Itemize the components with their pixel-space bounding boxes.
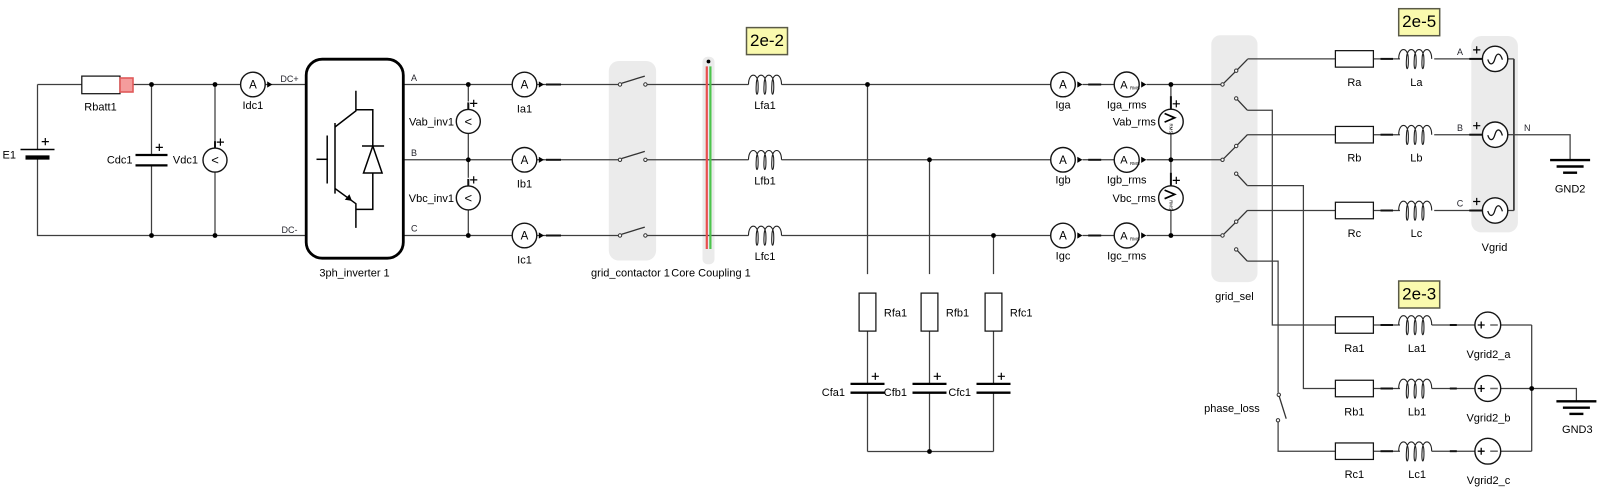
svg-text:Idc1: Idc1 — [243, 100, 264, 112]
svg-text:A: A — [411, 73, 417, 83]
svg-text:Rbatt1: Rbatt1 — [84, 102, 116, 114]
svg-text:Igb: Igb — [1055, 175, 1070, 187]
svg-text:Core Coupling 1: Core Coupling 1 — [671, 268, 751, 280]
svg-text:Rfb1: Rfb1 — [946, 308, 969, 320]
svg-text:Vab_rms: Vab_rms — [1113, 117, 1157, 129]
svg-text:Ia1: Ia1 — [517, 103, 532, 115]
svg-text:Vgrid2_a: Vgrid2_a — [1466, 349, 1511, 361]
svg-text:Lc: Lc — [1411, 228, 1423, 240]
svg-text:RMS: RMS — [1130, 86, 1140, 91]
svg-text:Ib1: Ib1 — [517, 179, 532, 191]
svg-text:RMS: RMS — [1130, 161, 1140, 166]
svg-text:GND3: GND3 — [1562, 424, 1593, 436]
svg-text:phase_loss: phase_loss — [1204, 403, 1260, 415]
svg-text:DC+: DC+ — [280, 74, 298, 84]
svg-text:Vgrid: Vgrid — [1482, 242, 1508, 254]
svg-text:La: La — [1410, 77, 1423, 89]
svg-text:2e-3: 2e-3 — [1402, 285, 1436, 304]
svg-text:Cdc1: Cdc1 — [107, 155, 133, 167]
svg-text:<: < — [211, 153, 219, 168]
svg-text:Rc1: Rc1 — [1345, 469, 1365, 481]
svg-text:Cfb1: Cfb1 — [884, 387, 907, 399]
svg-text:C: C — [1457, 199, 1464, 209]
svg-text:Igb_rms: Igb_rms — [1107, 175, 1147, 187]
svg-text:Vgrid2_b: Vgrid2_b — [1466, 413, 1510, 425]
svg-text:GND2: GND2 — [1555, 184, 1586, 196]
svg-text:Lb1: Lb1 — [1408, 407, 1426, 419]
svg-text:Cfc1: Cfc1 — [948, 387, 971, 399]
svg-text:A: A — [1120, 79, 1128, 91]
svg-text:Vab_inv1: Vab_inv1 — [409, 116, 454, 128]
svg-text:Ra1: Ra1 — [1344, 343, 1364, 355]
svg-text:2e-5: 2e-5 — [1402, 12, 1436, 31]
svg-text:La1: La1 — [1408, 343, 1426, 355]
svg-text:Ic1: Ic1 — [517, 254, 532, 266]
svg-text:E1: E1 — [3, 150, 16, 162]
svg-text:N: N — [1524, 123, 1531, 133]
svg-text:Rc: Rc — [1348, 228, 1362, 240]
svg-text:Vbc_rms: Vbc_rms — [1112, 193, 1156, 205]
svg-text:A: A — [521, 80, 529, 92]
svg-text:Ra: Ra — [1347, 77, 1362, 89]
svg-text:A: A — [1059, 231, 1067, 243]
svg-text:<: < — [465, 114, 473, 129]
svg-text:Iga: Iga — [1055, 99, 1071, 111]
svg-text:A: A — [1120, 230, 1128, 242]
svg-text:DC-: DC- — [282, 225, 298, 235]
svg-text:B: B — [411, 148, 417, 158]
svg-text:2e-2: 2e-2 — [750, 31, 784, 50]
svg-text:A: A — [1059, 80, 1067, 92]
svg-text:A: A — [521, 155, 529, 167]
svg-text:Lfa1: Lfa1 — [754, 100, 775, 112]
svg-text:RMS: RMS — [1168, 200, 1173, 210]
svg-text:A: A — [1059, 155, 1067, 167]
svg-text:Igc: Igc — [1056, 250, 1071, 262]
svg-text:A: A — [1457, 47, 1463, 57]
svg-text:A: A — [249, 80, 257, 92]
svg-text:grid_contactor 1: grid_contactor 1 — [591, 268, 670, 280]
svg-text:Rfa1: Rfa1 — [884, 308, 907, 320]
svg-text:Igc_rms: Igc_rms — [1107, 250, 1147, 262]
svg-text:Vbc_inv1: Vbc_inv1 — [409, 193, 454, 205]
svg-text:A: A — [521, 231, 529, 243]
svg-text:Rb1: Rb1 — [1344, 407, 1364, 419]
svg-text:Vdc1: Vdc1 — [173, 155, 198, 167]
svg-text:Cfa1: Cfa1 — [822, 387, 845, 399]
svg-text:Rb: Rb — [1347, 153, 1361, 165]
svg-text:grid_sel: grid_sel — [1215, 291, 1254, 303]
svg-text:RMS: RMS — [1130, 237, 1140, 242]
svg-text:Lfb1: Lfb1 — [754, 175, 775, 187]
svg-text:A: A — [1120, 155, 1128, 167]
svg-text:C: C — [411, 224, 418, 234]
svg-text:Lc1: Lc1 — [1408, 469, 1426, 481]
svg-text:Iga_rms: Iga_rms — [1107, 99, 1147, 111]
svg-text:RMS: RMS — [1168, 124, 1173, 134]
svg-text:Rfc1: Rfc1 — [1010, 308, 1033, 320]
svg-text:3ph_inverter 1: 3ph_inverter 1 — [319, 268, 389, 280]
svg-text:Vgrid2_c: Vgrid2_c — [1467, 475, 1511, 487]
svg-text:Lb: Lb — [1410, 153, 1422, 165]
svg-text:Lfc1: Lfc1 — [755, 251, 776, 263]
svg-text:B: B — [1457, 123, 1463, 133]
svg-text:<: < — [465, 190, 473, 205]
